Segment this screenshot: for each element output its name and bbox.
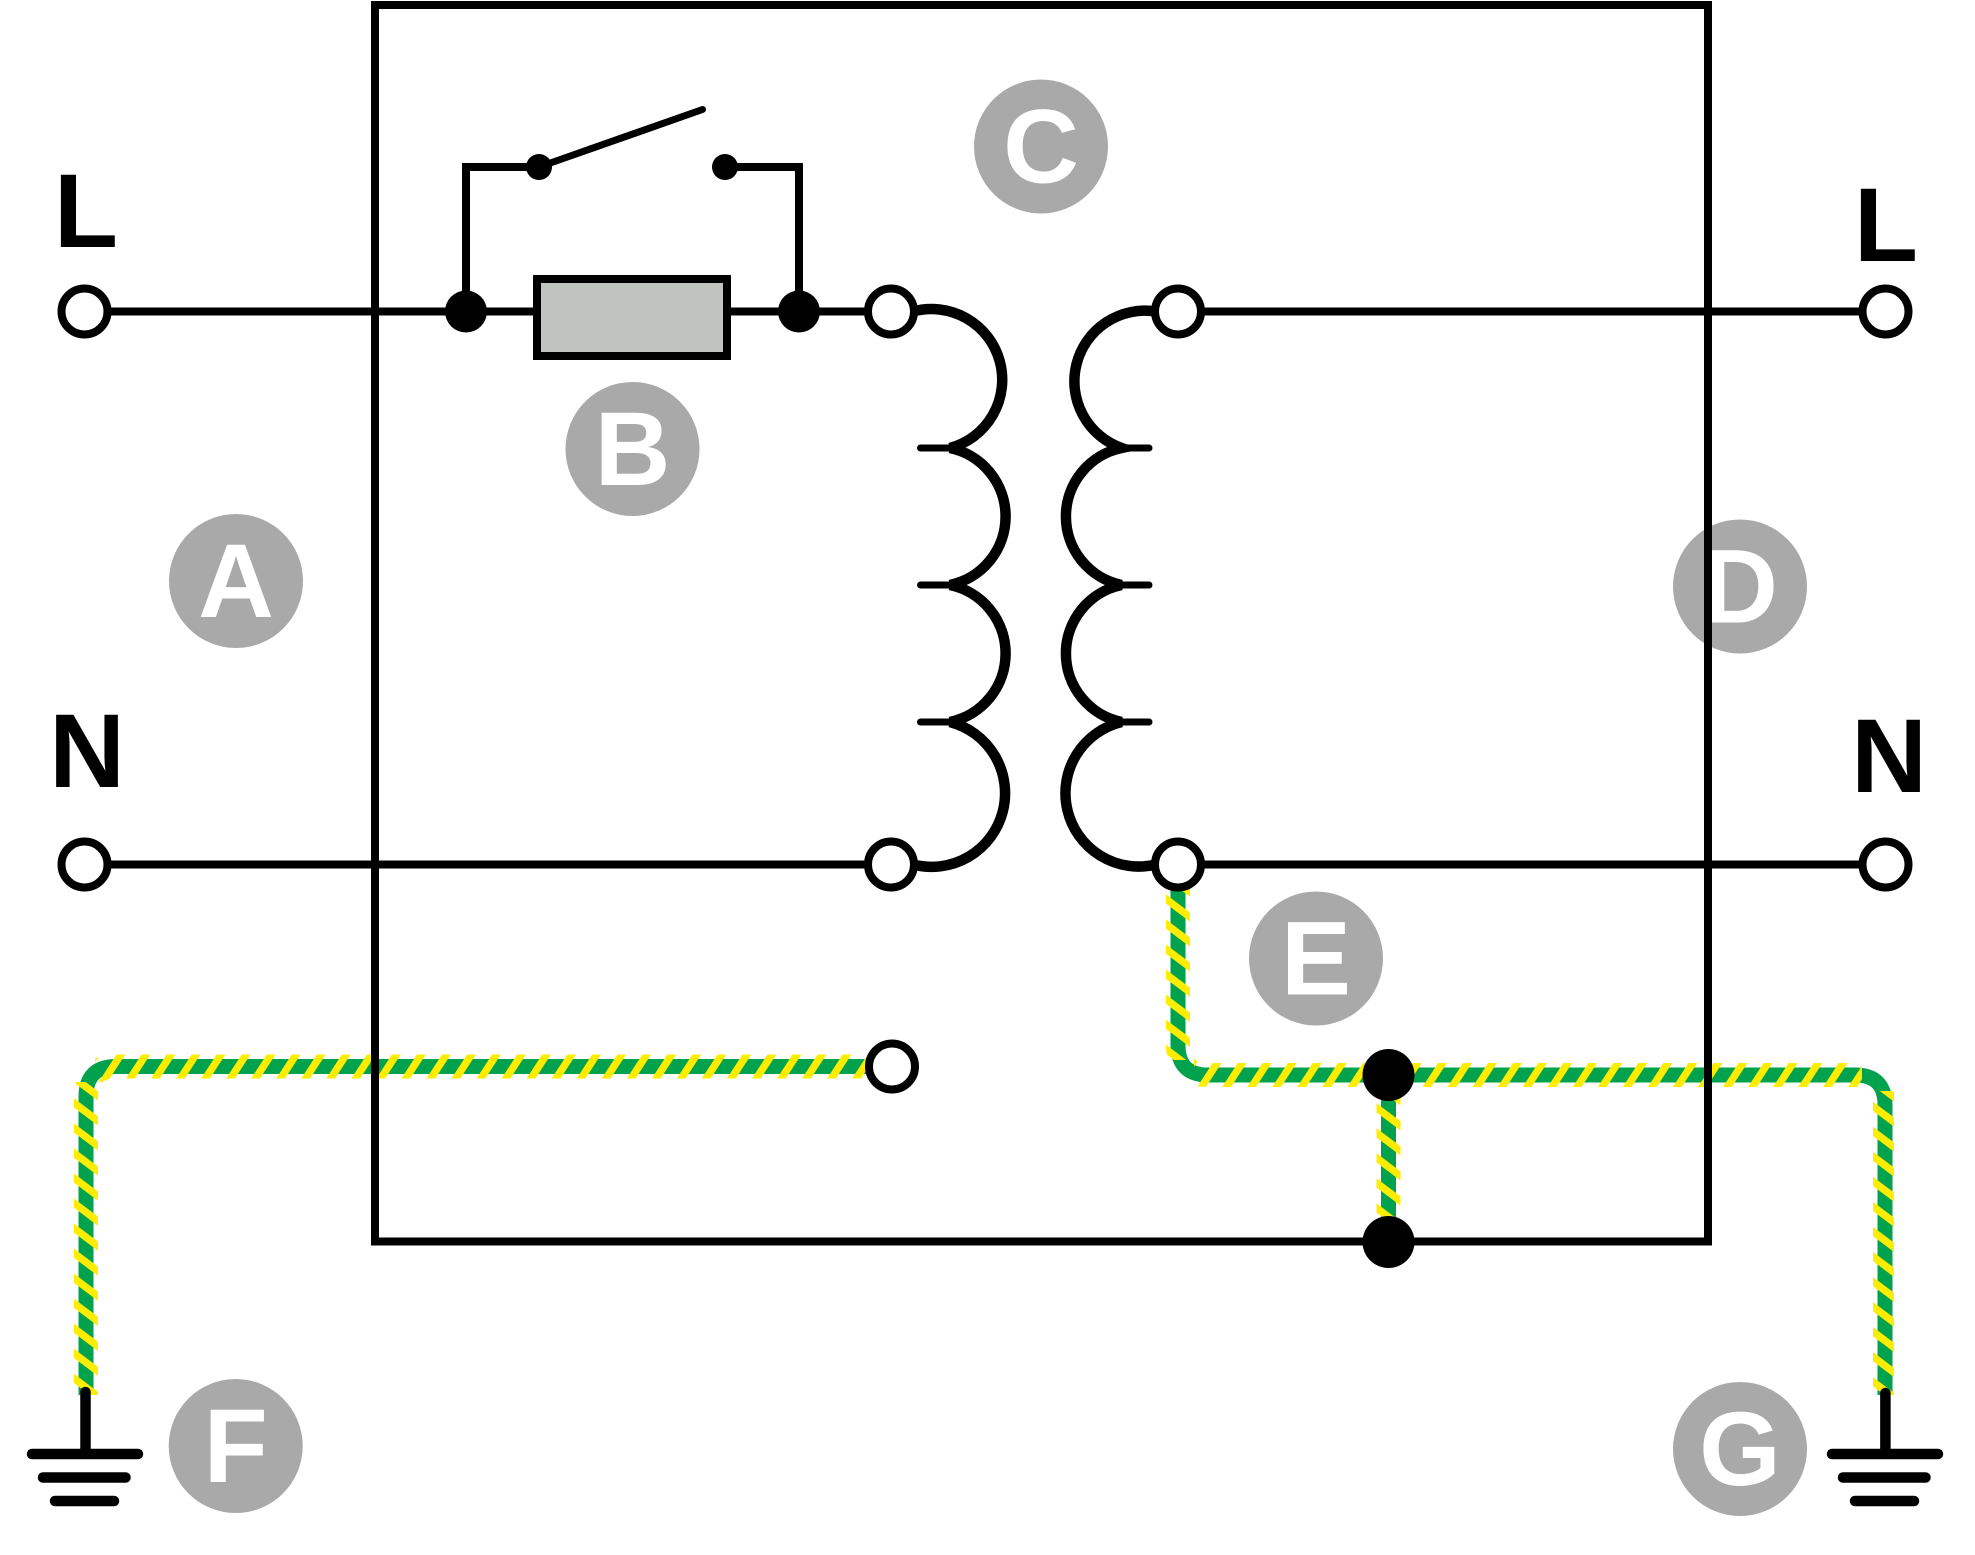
svg-text:L: L xyxy=(54,153,118,270)
svg-text:N: N xyxy=(1851,698,1927,815)
svg-text:G: G xyxy=(1699,1391,1781,1508)
svg-text:N: N xyxy=(49,693,125,810)
svg-text:F: F xyxy=(204,1388,268,1505)
svg-text:C: C xyxy=(1003,89,1079,206)
svg-text:A: A xyxy=(198,523,274,640)
svg-text:B: B xyxy=(595,391,671,508)
svg-text:D: D xyxy=(1702,529,1778,646)
svg-text:E: E xyxy=(1281,901,1351,1018)
svg-text:L: L xyxy=(1854,167,1918,284)
